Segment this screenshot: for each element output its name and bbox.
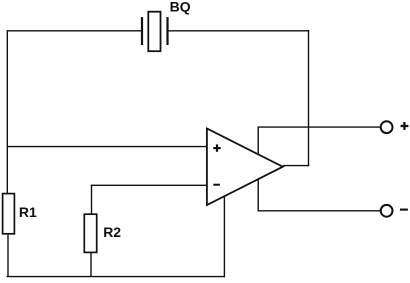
terminal circle minus output bbox=[381, 205, 393, 217]
terminal circle plus output bbox=[381, 121, 393, 133]
wire top-left horizontal bbox=[7, 30, 142, 32]
op-amp plus input mark bbox=[213, 144, 220, 151]
wire minus-tap vertical bbox=[257, 179, 259, 211]
crystal BQ right plate bbox=[166, 17, 168, 45]
op-amp U1 triangle bbox=[207, 129, 283, 206]
wire plus-tap vertical bbox=[257, 127, 259, 154]
wire bottom to op-amp edge vertical bbox=[223, 196, 225, 277]
wire plus output horizontal bbox=[258, 126, 381, 128]
wire R2 bottom lead bbox=[90, 252, 92, 277]
wire minus output horizontal bbox=[258, 210, 381, 212]
resistor R2 bbox=[84, 214, 96, 252]
label plus terminal bbox=[401, 122, 409, 130]
wire feedback vertical bbox=[308, 30, 310, 166]
crystal BQ body bbox=[148, 12, 160, 52]
svg-text:R2: R2 bbox=[103, 224, 121, 240]
op-amp minus input mark bbox=[213, 184, 220, 186]
crystal BQ left plate bbox=[141, 17, 143, 45]
svg-text:R1: R1 bbox=[19, 204, 37, 220]
wire inverting input bbox=[91, 184, 207, 186]
wire top-right horizontal bbox=[168, 30, 309, 32]
svg-text:BQ: BQ bbox=[170, 0, 191, 14]
wire left rail vertical bbox=[6, 30, 8, 194]
wire bottom rail bbox=[7, 276, 226, 278]
resistor R1 bbox=[3, 194, 15, 234]
wire non-inverting input bbox=[7, 146, 207, 148]
wire R2 top lead bbox=[91, 185, 93, 215]
wire R1 bottom lead bbox=[7, 234, 9, 277]
label minus terminal bbox=[400, 209, 408, 211]
wire op-amp output bbox=[283, 165, 309, 167]
